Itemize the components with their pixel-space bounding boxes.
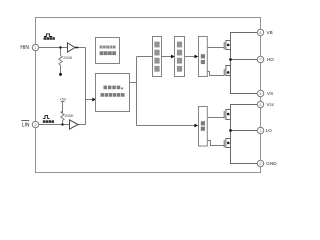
svg-text:HIN: HIN [20,45,29,51]
svg-text:2: 2 [260,162,262,166]
svg-text:+5V: +5V [59,97,66,102]
svg-text:LIN: LIN [22,122,30,128]
svg-text:5: 5 [260,92,262,96]
svg-text:1: 1 [260,129,262,133]
svg-text:GND: GND [266,161,277,166]
svg-text:3: 3 [260,103,262,107]
svg-text:HO: HO [267,57,274,62]
svg-text:2: 2 [35,123,37,127]
svg-text:VB: VB [267,30,273,35]
svg-text:1: 1 [35,46,37,50]
svg-text:VS: VS [267,91,273,96]
svg-text:200K: 200K [63,55,72,60]
svg-text:6: 6 [260,31,262,35]
svg-text:Vcc: Vcc [267,102,275,107]
svg-text:200K: 200K [65,113,74,118]
svg-text:LO: LO [266,128,273,133]
svg-text:7: 7 [260,58,262,62]
